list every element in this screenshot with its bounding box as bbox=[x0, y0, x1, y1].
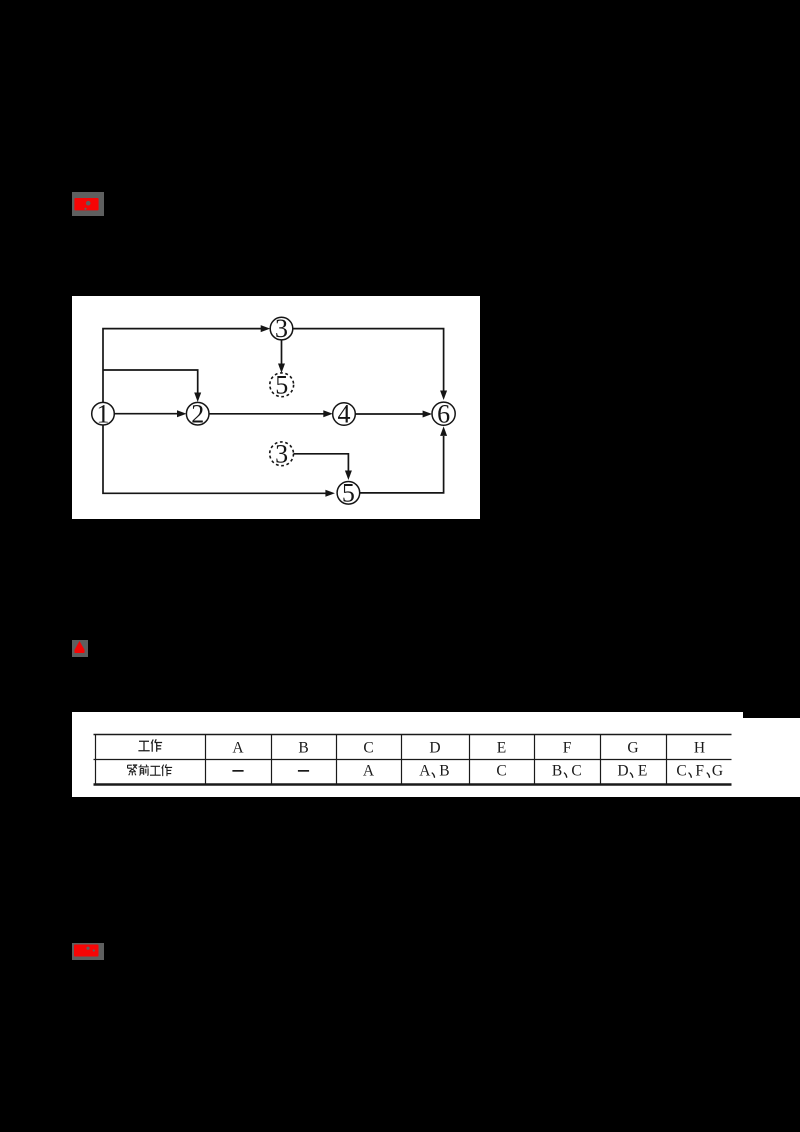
svg-text:1: 1 bbox=[97, 399, 110, 428]
svg-text:H: H bbox=[694, 739, 705, 756]
svg-text:4: 4 bbox=[338, 400, 351, 429]
svg-text:B: B bbox=[439, 762, 449, 779]
svg-text:6: 6 bbox=[437, 399, 450, 428]
svg-text:C: C bbox=[571, 762, 581, 779]
svg-text:A: A bbox=[419, 762, 431, 779]
svg-text:G: G bbox=[627, 739, 638, 756]
svg-text:D: D bbox=[429, 739, 440, 756]
svg-text:E: E bbox=[497, 739, 506, 756]
svg-text:E: E bbox=[638, 762, 647, 779]
svg-text:3: 3 bbox=[275, 314, 288, 343]
svg-text:C: C bbox=[363, 739, 373, 756]
svg-text:5: 5 bbox=[342, 478, 355, 507]
svg-text:F: F bbox=[563, 739, 572, 756]
svg-text:B: B bbox=[552, 762, 562, 779]
svg-text:5: 5 bbox=[275, 370, 288, 399]
svg-text:F: F bbox=[695, 762, 704, 779]
svg-text:C: C bbox=[496, 762, 506, 779]
svg-text:C: C bbox=[676, 762, 686, 779]
svg-text:3: 3 bbox=[275, 439, 288, 468]
svg-text:G: G bbox=[712, 762, 723, 779]
svg-text:A: A bbox=[363, 762, 375, 779]
svg-text:A: A bbox=[232, 739, 244, 756]
svg-text:2: 2 bbox=[191, 399, 204, 428]
svg-text:B: B bbox=[298, 739, 308, 756]
svg-text:D: D bbox=[617, 762, 628, 779]
